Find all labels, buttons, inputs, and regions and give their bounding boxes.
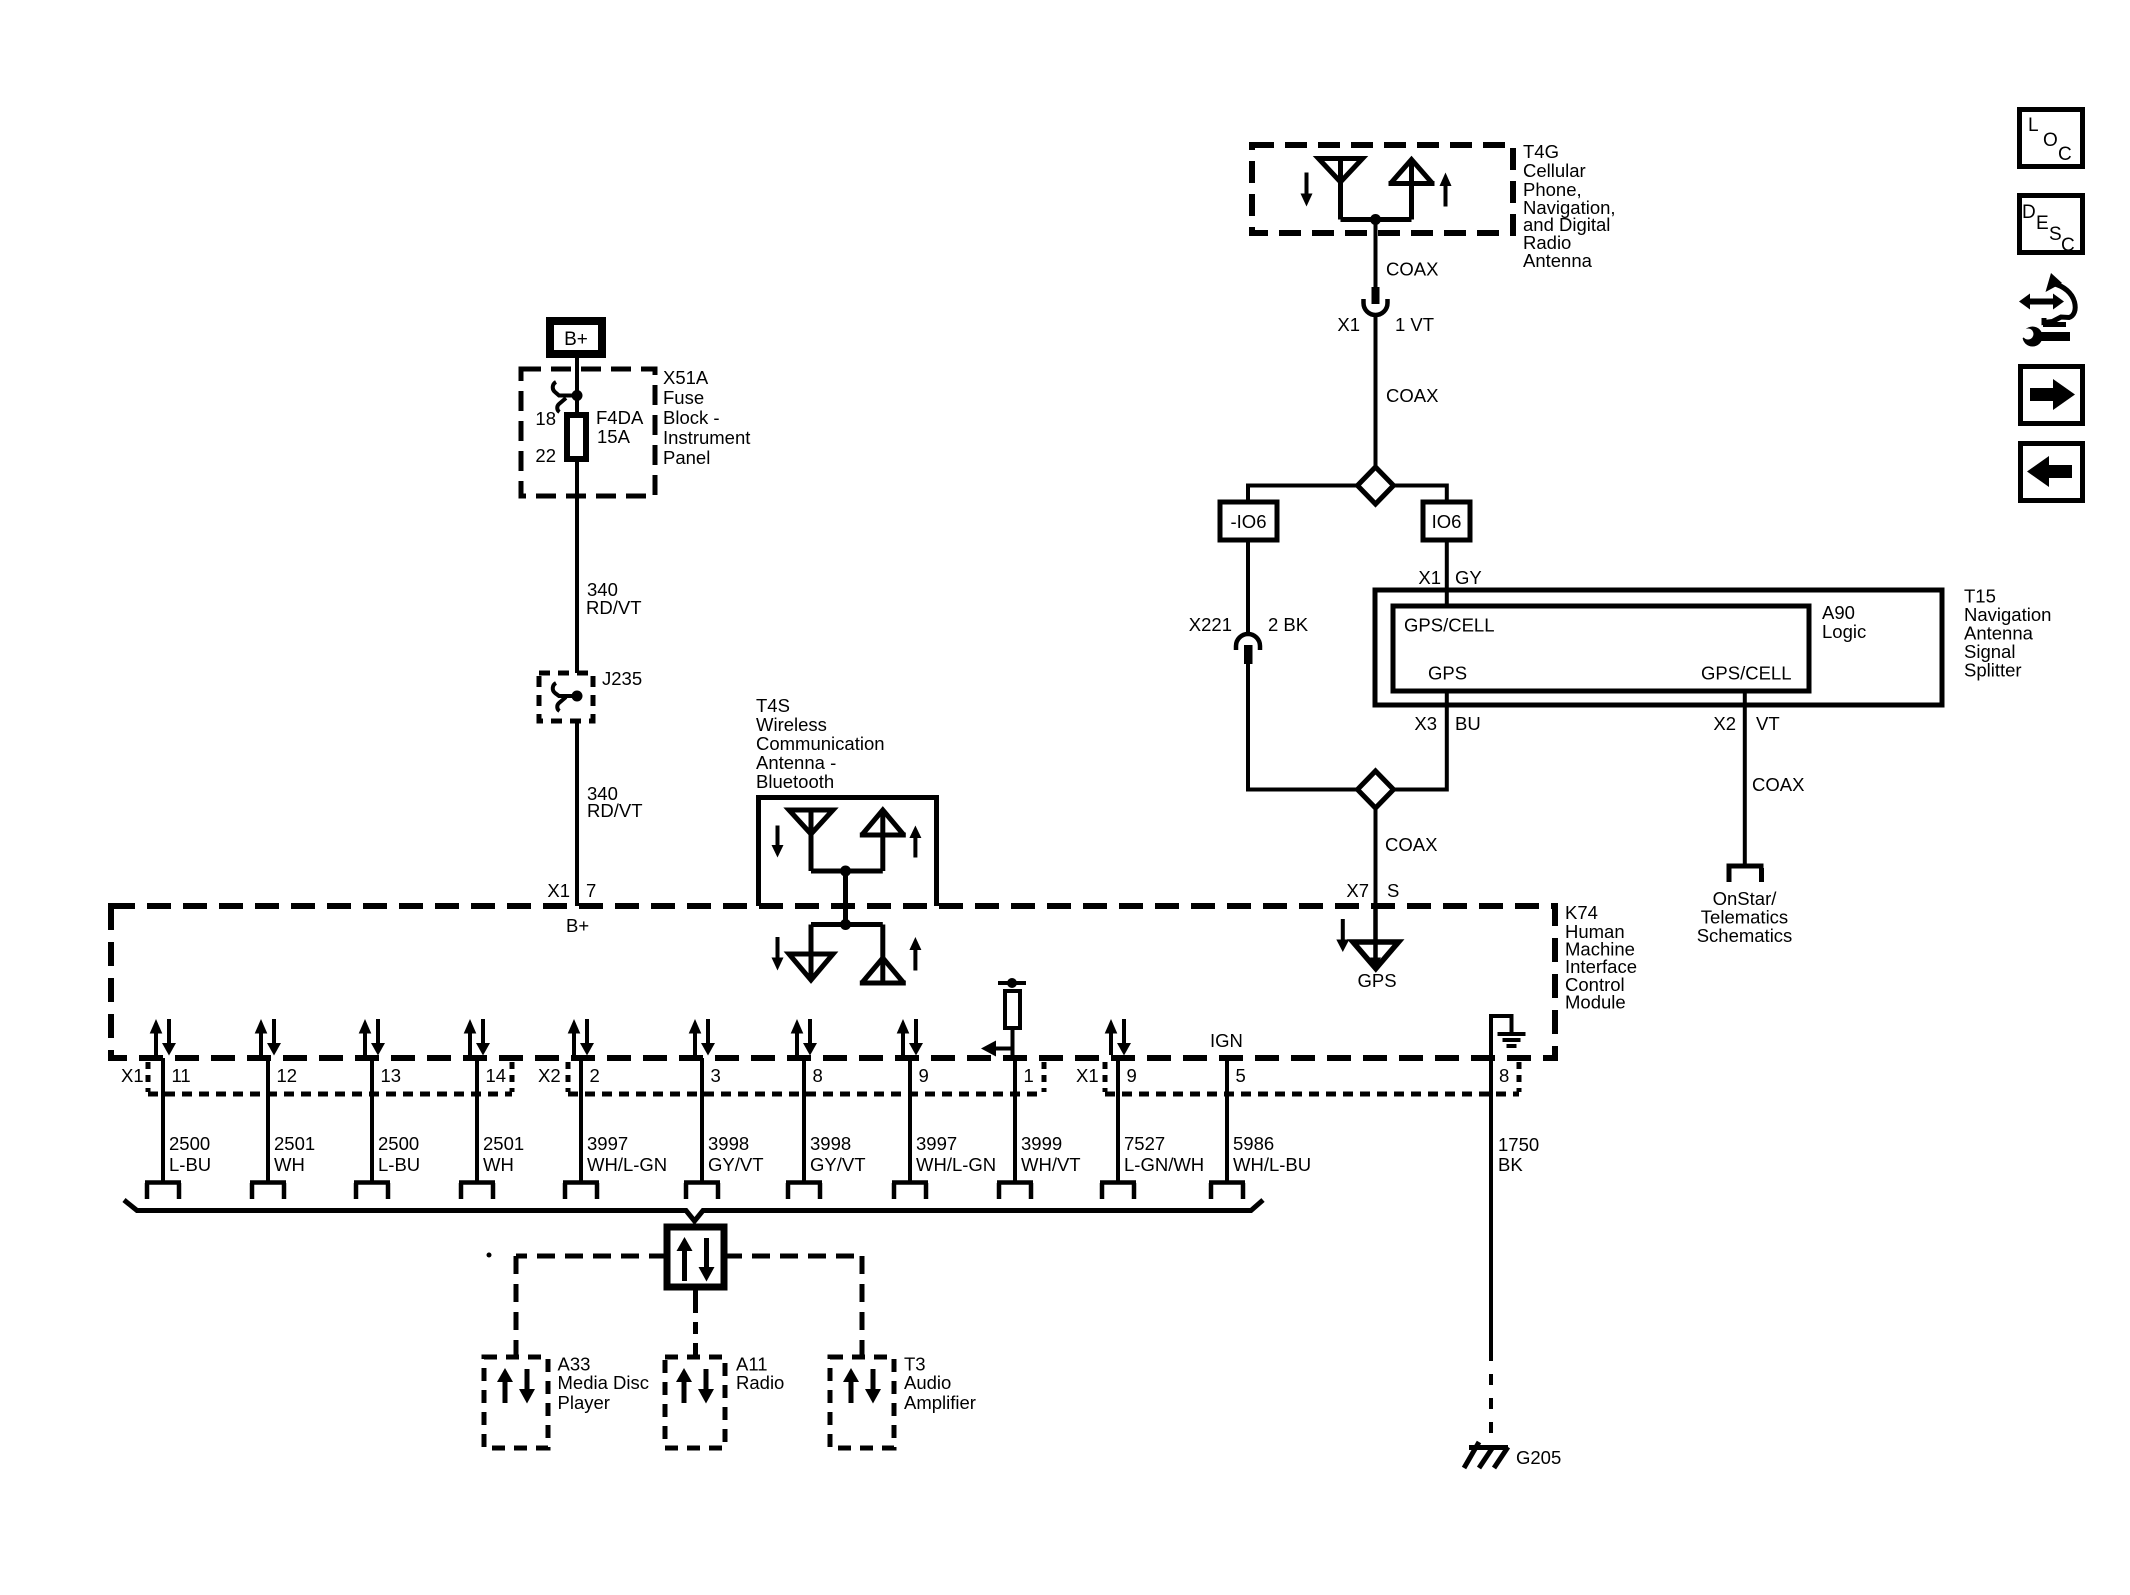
wire X221 to lower splice — [1248, 664, 1358, 790]
svg-text:O: O — [2043, 130, 2058, 151]
label X51A Fuse Block - Instrument Panel — [663, 367, 750, 468]
wire label 340 RD/VT lower — [587, 783, 643, 821]
off-page terminal to OnStar — [1727, 866, 1764, 882]
svg-text:WH/L-GN: WH/L-GN — [916, 1154, 996, 1175]
svg-text:L: L — [2028, 115, 2039, 136]
K74 signal-direction arrow at pin 1 — [981, 1041, 1013, 1057]
inline connector X221 — [1236, 634, 1260, 664]
svg-text:2500: 2500 — [378, 1133, 419, 1154]
connector clip terminal pin 18 — [553, 382, 583, 412]
svg-text:7: 7 — [586, 880, 596, 901]
svg-text:15A: 15A — [597, 426, 631, 447]
svg-text:2500: 2500 — [169, 1133, 210, 1154]
svg-text:X1: X1 — [121, 1065, 144, 1086]
svg-text:Fuse: Fuse — [663, 387, 704, 408]
svg-text:Wireless: Wireless — [756, 714, 827, 735]
svg-text:VT: VT — [1756, 713, 1780, 734]
wire to IO6 branch — [1394, 486, 1447, 503]
T4S transmit antenna symbol — [860, 810, 906, 871]
K74 AM/FM antenna element at pin 1 — [998, 978, 1026, 1058]
K74 signal arrows at pin 9 x1118 — [1105, 1019, 1131, 1056]
dashed bus to T3 — [724, 1256, 862, 1357]
inline coax connector X1 — [1364, 287, 1388, 467]
svg-text:RD/VT: RD/VT — [586, 597, 642, 618]
K74 internal transmit arrow — [909, 937, 921, 950]
previous-page arrow button — [2021, 444, 2083, 501]
data-transfer and service icon — [2014, 273, 2075, 347]
svg-text:12: 12 — [277, 1065, 298, 1086]
antenna T4S box — [759, 798, 937, 907]
svg-text:B+: B+ — [566, 915, 589, 936]
fuse value label F4DA 15A — [596, 407, 644, 447]
svg-text:X221: X221 — [1189, 614, 1232, 635]
svg-text:9: 9 — [1127, 1065, 1137, 1086]
T4G transmit antenna symbol — [1389, 160, 1435, 220]
K74 internal ground at pin 8 — [1491, 1016, 1526, 1057]
connector strip X2 dotted outline — [568, 1062, 1044, 1094]
svg-text:Bluetooth: Bluetooth — [756, 771, 834, 792]
svg-text:2 BK: 2 BK — [1268, 614, 1309, 635]
COAX wire from T4G — [1374, 220, 1378, 289]
svg-text:S: S — [1387, 880, 1399, 901]
T4G receive direction arrow — [1305, 173, 1309, 195]
svg-text:2: 2 — [590, 1065, 600, 1086]
dashed bus to A33 — [516, 1256, 667, 1357]
svg-text:GPS: GPS — [1358, 970, 1397, 991]
svg-text:3998: 3998 — [810, 1133, 851, 1154]
svg-text:11: 11 — [172, 1065, 191, 1086]
svg-text:WH/VT: WH/VT — [1021, 1154, 1081, 1175]
svg-text:Logic: Logic — [1822, 621, 1866, 642]
svg-text:X51A: X51A — [663, 367, 709, 388]
K74 signal arrows at pin 3 x702 — [689, 1019, 715, 1056]
A90 logic inner box — [1393, 606, 1809, 691]
label T15 Navigation Antenna Signal Splitter — [1964, 586, 2051, 681]
splice diamond lower — [1358, 771, 1394, 808]
wire label 340 RD/VT — [586, 579, 642, 618]
svg-text:IO6: IO6 — [1432, 511, 1462, 532]
svg-text:Block -: Block - — [663, 407, 720, 428]
label A11 Radio — [736, 1354, 784, 1394]
svg-text:Panel: Panel — [663, 447, 710, 468]
wire GPS output to lower splice — [1394, 691, 1447, 790]
svg-text:S: S — [2049, 224, 2062, 245]
svg-text:Antenna -: Antenna - — [756, 752, 836, 773]
svg-text:F4DA: F4DA — [596, 407, 644, 428]
svg-text:K74: K74 — [1565, 902, 1598, 923]
svg-text:-IO6: -IO6 — [1231, 511, 1267, 532]
svg-text:18: 18 — [535, 408, 556, 429]
K74 pin 11 wire 2500 L-BU — [145, 1058, 211, 1199]
module K74 dashed box — [111, 906, 1555, 1058]
K74 signal arrows at pin 13 x372 — [359, 1019, 385, 1056]
module A11 dashed box — [665, 1357, 725, 1448]
svg-text:WH: WH — [483, 1154, 514, 1175]
wire 340 RD/VT lower segment — [575, 721, 579, 906]
svg-text:5: 5 — [1236, 1065, 1246, 1086]
K74 pin 8 ground wire 1750 BK — [1491, 1058, 1539, 1445]
svg-text:C: C — [2061, 235, 2075, 256]
next-page arrow button — [2021, 367, 2083, 424]
K74 signal arrows at pin 14 x477 — [464, 1019, 490, 1056]
svg-text:GPS: GPS — [1428, 663, 1467, 684]
svg-text:2501: 2501 — [274, 1133, 315, 1154]
label T3 Audio Amplifier — [904, 1354, 976, 1414]
svg-text:T4S: T4S — [756, 695, 790, 716]
pin label X1 1 VT — [1337, 314, 1434, 335]
svg-text:L-GN/WH: L-GN/WH — [1124, 1154, 1204, 1175]
label A90 Logic — [1822, 602, 1866, 642]
wire to -IO6 branch — [1248, 486, 1358, 503]
net flag IO6 — [1423, 502, 1470, 540]
T4G transmit direction arrow — [1440, 173, 1452, 187]
K74 signal arrows at pin 2 x581 — [568, 1019, 594, 1056]
svg-text:3997: 3997 — [916, 1133, 957, 1154]
svg-text:BK: BK — [1498, 1154, 1523, 1175]
svg-text:COAX: COAX — [1752, 774, 1804, 795]
T4S junction to K74 — [811, 866, 883, 931]
pin label X7 S — [1346, 880, 1399, 901]
K74 pin 9 wire 3997 WH/L-GN — [892, 1058, 996, 1199]
pin label X1 7 at K74 B+ input — [547, 880, 596, 901]
connector strip X1 right dotted outline — [1105, 1062, 1519, 1094]
svg-text:Antenna: Antenna — [1523, 250, 1593, 271]
stray dot mark — [487, 1253, 492, 1258]
svg-text:A90: A90 — [1822, 602, 1855, 623]
label K74 Human Machine Interface Control Module — [1565, 902, 1637, 1013]
K74 internal transmit antenna symbol — [860, 925, 906, 984]
svg-text:Media Disc: Media Disc — [558, 1372, 650, 1393]
svg-text:Instrument: Instrument — [663, 427, 750, 448]
wire IO6 to splitter — [1445, 540, 1449, 606]
svg-text:IGN: IGN — [1210, 1030, 1243, 1051]
T4G receive antenna symbol — [1319, 159, 1363, 220]
svg-text:2501: 2501 — [483, 1133, 524, 1154]
bus brace — [124, 1200, 1263, 1221]
svg-text:X7: X7 — [1346, 880, 1369, 901]
K74 pin 14 wire 2501 WH — [459, 1058, 524, 1199]
K74 internal receive antenna symbol — [789, 925, 883, 981]
svg-text:C: C — [2058, 144, 2072, 165]
splitter T15 outer box — [1375, 590, 1942, 705]
svg-text:E: E — [2036, 213, 2049, 234]
K74 signal arrows at pin 8 x804 — [791, 1019, 817, 1056]
svg-text:9: 9 — [919, 1065, 929, 1086]
svg-text:Module: Module — [1565, 992, 1626, 1013]
splice diamond upper — [1358, 467, 1394, 504]
splice pack J235 dashed box — [539, 673, 593, 721]
svg-text:X1: X1 — [1076, 1065, 1099, 1086]
svg-text:L-BU: L-BU — [169, 1154, 211, 1175]
connector strip X1 left dotted outline — [148, 1062, 512, 1094]
K74 GPS input arrow — [1341, 919, 1345, 941]
svg-text:D: D — [2022, 202, 2036, 223]
svg-text:X2: X2 — [538, 1065, 561, 1086]
svg-text:Player: Player — [558, 1392, 610, 1413]
svg-text:3998: 3998 — [708, 1133, 749, 1154]
svg-text:X3: X3 — [1414, 713, 1437, 734]
COAX wire to K74 GPS input — [1374, 808, 1378, 906]
svg-text:3: 3 — [711, 1065, 721, 1086]
K74 pin 8 wire 3998 GY/VT — [786, 1058, 866, 1199]
K74 internal receive arrow — [776, 937, 780, 959]
T4S receive antenna symbol — [789, 810, 833, 871]
label OnStar Telematics Schematics — [1697, 888, 1793, 946]
svg-text:X1: X1 — [547, 880, 570, 901]
T4G antenna junction — [1341, 214, 1412, 225]
K74 pin 3 wire 3998 GY/VT — [684, 1058, 764, 1199]
svg-text:3999: 3999 — [1021, 1133, 1062, 1154]
svg-text:X1: X1 — [1337, 314, 1360, 335]
svg-text:COAX: COAX — [1386, 385, 1438, 406]
K74 pin 1 wire 3999 WH/VT — [997, 1058, 1081, 1199]
B+ power symbol — [550, 321, 602, 354]
svg-text:WH/L-BU: WH/L-BU — [1233, 1154, 1311, 1175]
pin label X3 BU — [1414, 713, 1480, 734]
DESC navigation button — [2020, 196, 2083, 257]
svg-text:8: 8 — [1499, 1065, 1509, 1086]
connector clip terminal in J235 — [553, 683, 583, 711]
svg-text:B+: B+ — [564, 329, 588, 350]
K74 signal arrows at pin 12 x268 — [255, 1019, 281, 1056]
net flag -IO6 — [1220, 502, 1277, 540]
svg-text:GY/VT: GY/VT — [810, 1154, 866, 1175]
svg-text:L-BU: L-BU — [378, 1154, 420, 1175]
fuse F4DA 15A — [567, 372, 586, 496]
svg-text:Communication: Communication — [756, 733, 885, 754]
svg-text:G205: G205 — [1516, 1447, 1561, 1468]
wire -IO6 to X221 — [1246, 540, 1250, 634]
svg-text:Amplifier: Amplifier — [904, 1392, 976, 1413]
K74 pin 5 wire 5986 WH/L-BU — [1209, 1058, 1311, 1199]
svg-text:X2: X2 — [1713, 713, 1736, 734]
K74 pin 12 wire 2501 WH — [250, 1058, 315, 1199]
svg-text:3997: 3997 — [587, 1133, 628, 1154]
svg-text:T4G: T4G — [1523, 141, 1559, 162]
svg-text:J235: J235 — [602, 668, 642, 689]
pin label X1 GY — [1418, 567, 1481, 588]
svg-text:GY/VT: GY/VT — [708, 1154, 764, 1175]
svg-text:1750: 1750 — [1498, 1134, 1539, 1155]
svg-text:X1: X1 — [1418, 567, 1441, 588]
fuse block X51A dashed box — [521, 369, 655, 496]
svg-text:RD/VT: RD/VT — [587, 800, 643, 821]
svg-text:GY: GY — [1455, 567, 1482, 588]
module A33 dashed box — [484, 1357, 548, 1448]
svg-text:13: 13 — [381, 1065, 402, 1086]
LOC navigation button — [2020, 110, 2083, 167]
svg-text:5986: 5986 — [1233, 1133, 1274, 1154]
svg-text:BU: BU — [1455, 713, 1481, 734]
svg-text:COAX: COAX — [1386, 259, 1438, 280]
ground G205 symbol — [1464, 1442, 1508, 1468]
K74 pin 9 wire 7527 L-GN/WH — [1100, 1058, 1204, 1199]
wire GPS/CELL output to OnStar — [1743, 691, 1747, 866]
svg-text:GPS/CELL: GPS/CELL — [1701, 663, 1792, 684]
K74 pin 13 wire 2500 L-BU — [354, 1058, 420, 1199]
label T4G Cellular Phone Navigation and Digital Radio Antenna — [1523, 141, 1616, 271]
svg-text:GPS/CELL: GPS/CELL — [1404, 615, 1495, 636]
svg-text:Audio: Audio — [904, 1372, 951, 1393]
svg-text:7527: 7527 — [1124, 1133, 1165, 1154]
T4S receive arrow — [776, 826, 780, 847]
wire B+ to fuse block — [575, 358, 579, 372]
svg-text:COAX: COAX — [1385, 834, 1437, 855]
svg-text:8: 8 — [813, 1065, 823, 1086]
module T3 dashed box — [830, 1357, 894, 1448]
svg-text:1: 1 — [1024, 1065, 1034, 1086]
dashed bus to A11 — [693, 1287, 698, 1357]
K74 signal arrows at pin 9 x910 — [897, 1019, 923, 1056]
svg-text:22: 22 — [535, 445, 556, 466]
svg-text:WH/L-GN: WH/L-GN — [587, 1154, 667, 1175]
label T4S Wireless Communication Antenna - Bluetooth — [756, 695, 885, 792]
svg-text:Splitter: Splitter — [1964, 660, 2022, 681]
T4S transmit arrow — [909, 826, 921, 839]
K74 signal arrows at pin 11 x163 — [150, 1019, 176, 1056]
antenna T4G dashed box — [1252, 145, 1513, 233]
serial data distribution node — [667, 1227, 724, 1287]
wire 340 RD/VT upper segment — [575, 496, 579, 673]
pin label X2 VT — [1713, 713, 1779, 734]
K74 GPS antenna symbol — [1353, 906, 1399, 969]
svg-text:Radio: Radio — [736, 1372, 784, 1393]
K74 pin 2 wire 3997 WH/L-GN — [563, 1058, 667, 1199]
pin label X221 2 BK — [1189, 614, 1309, 635]
svg-text:WH: WH — [274, 1154, 305, 1175]
svg-text:Schematics: Schematics — [1697, 925, 1793, 946]
label A33 Media Disc Player — [558, 1354, 650, 1414]
svg-text:Cellular: Cellular — [1523, 160, 1586, 181]
svg-text:14: 14 — [486, 1065, 507, 1086]
svg-text:1 VT: 1 VT — [1395, 314, 1434, 335]
